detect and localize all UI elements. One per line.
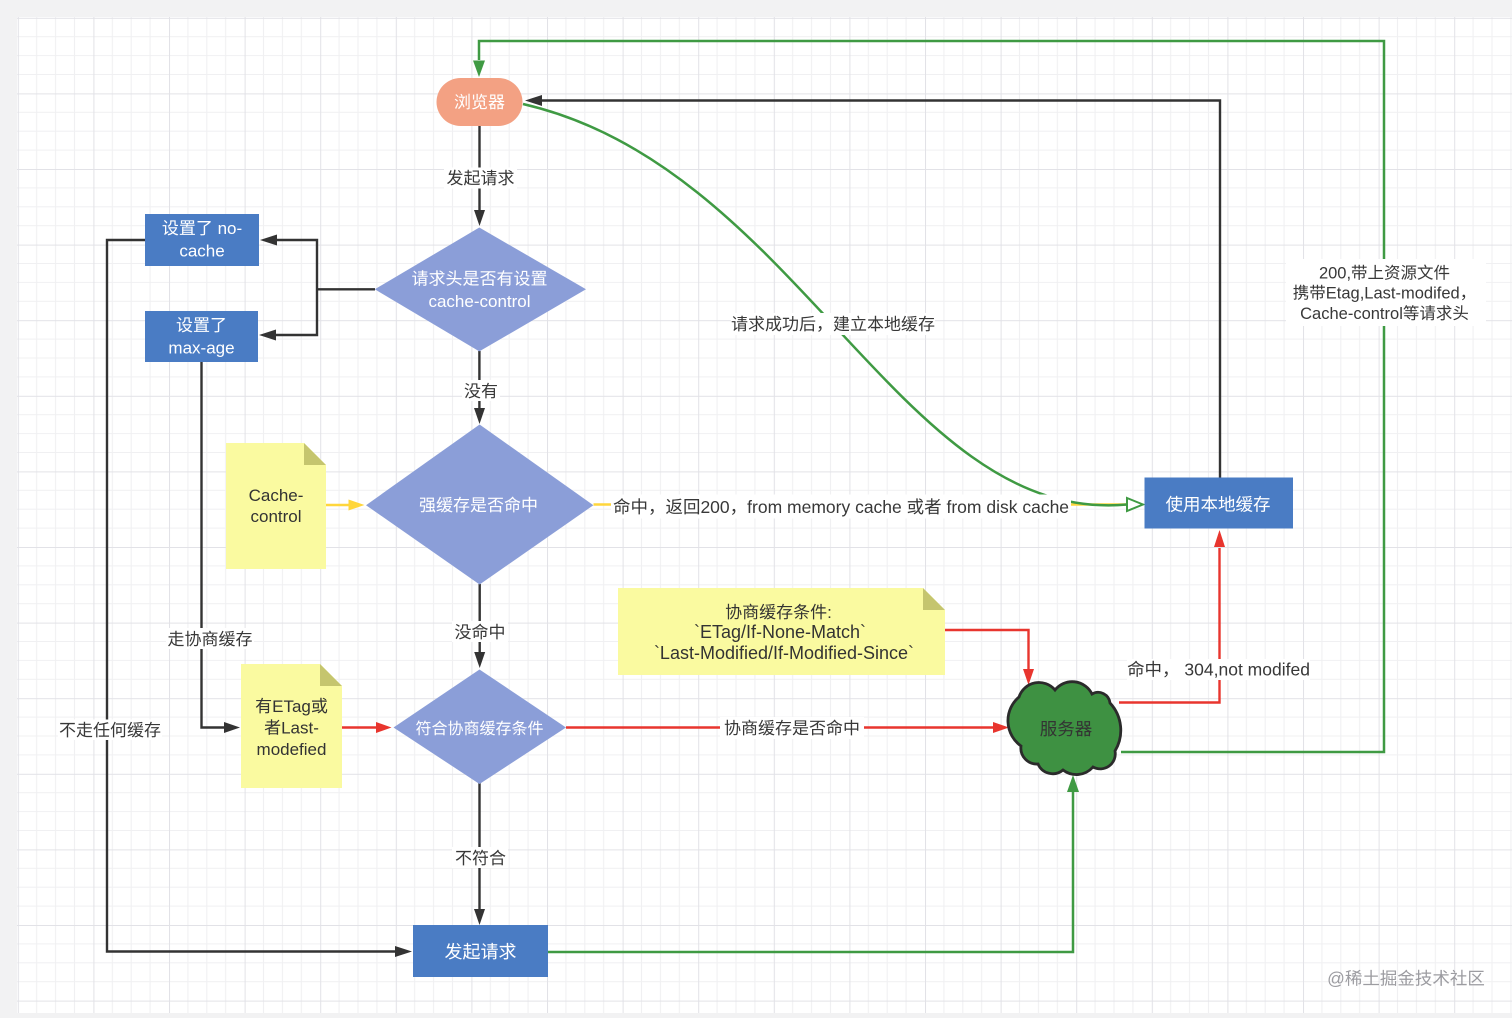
label take conditional cache (166, 628, 254, 649)
svg-text:命中，返回200，from memory cache 或者: 命中，返回200，from memory cache 或者 from disk … (613, 497, 1069, 517)
svg-text:Cache-control等请求头: Cache-control等请求头 (1300, 305, 1469, 323)
wire red: condition note to server top (945, 630, 1029, 669)
svg-text:modefied: modefied (257, 740, 327, 759)
node rect max-age (145, 311, 258, 362)
svg-text:发起请求: 发起请求 (447, 169, 515, 188)
label hit 304 not modified (1127, 659, 1310, 680)
svg-text:协商缓存是否命中: 协商缓存是否命中 (724, 719, 860, 738)
node rect no-cache (145, 214, 259, 266)
svg-text:不符合: 不符合 (455, 849, 506, 868)
svg-text:cache: cache (179, 242, 224, 261)
wire black: diamond2 to diamond3 (479, 584, 481, 652)
node note3 ETag or Last-modified (241, 664, 342, 788)
wire yellow: note1 to diamond2 (326, 504, 349, 506)
node rect use local cache (1145, 478, 1294, 529)
svg-text:设置了 no-: 设置了 no- (162, 219, 242, 238)
label request success build local cache (731, 313, 935, 335)
svg-text:者Last-: 者Last- (264, 719, 319, 738)
svg-text:请求头是否有设置: 请求头是否有设置 (412, 270, 548, 289)
label hit return 200 from memory/disk cache (611, 495, 1071, 519)
label conditional cache hit? (720, 717, 864, 739)
node diamond3 conditional cache check (394, 670, 567, 785)
arrowhead into max-age rect (259, 330, 276, 341)
svg-text:请求成功后，建立本地缓存: 请求成功后，建立本地缓存 (731, 315, 935, 334)
wire black: diamond1 left tip to branch point (276, 240, 375, 335)
node diamond1 cache-control set? (375, 228, 586, 352)
wire red: ETag note to diamond3 (342, 726, 376, 728)
wire yellow: diamond2 to local-cache rect (594, 503, 1129, 505)
svg-text:没有: 没有 (464, 382, 498, 401)
svg-text:`Last-Modified/If-Modified-Sin: `Last-Modified/If-Modified-Since` (654, 643, 914, 663)
svg-text:`ETag/If-None-Match`: `ETag/If-None-Match` (694, 622, 866, 642)
wire green: big response loop server-right-top-browser (479, 41, 1384, 752)
svg-text:服务器: 服务器 (1040, 719, 1093, 739)
wire black: no-cache rect left, down to bottom request rect (107, 240, 395, 952)
svg-text:Cache-: Cache- (249, 486, 304, 505)
svg-text:命中， 304,not modifed: 命中， 304,not modifed (1127, 660, 1310, 680)
node server cloud (1008, 682, 1121, 775)
node note1 Cache-control (226, 443, 326, 569)
label issue request (top edge) (444, 168, 517, 189)
svg-text:使用本地缓存: 使用本地缓存 (1166, 495, 1271, 515)
svg-text:不走任何缓存: 不走任何缓存 (59, 721, 161, 740)
svg-text:协商缓存条件:: 协商缓存条件: (725, 603, 832, 622)
wire black: diamond1 to diamond2 (478, 351, 480, 408)
node note2 conditional cache conditions (618, 588, 945, 675)
arrowhead into no-cache rect (260, 235, 277, 246)
wire black: max-age rect bottom down to ETag note (202, 362, 225, 728)
svg-text:control: control (250, 507, 301, 526)
label no cache at all (58, 720, 162, 741)
svg-text:cache-control: cache-control (428, 292, 530, 311)
wire green: bottom request rect to server bottom (548, 792, 1073, 952)
wire green: curve browser to local-cache (523, 104, 1127, 505)
node browser capsule (437, 78, 523, 126)
wire black: local-cache rect top, left to browser (542, 101, 1220, 479)
label none (462, 380, 500, 401)
svg-text:强缓存是否命中: 强缓存是否命中 (419, 496, 538, 515)
svg-text:有ETag或: 有ETag或 (255, 697, 328, 716)
svg-text:携带Etag,Last-modifed，: 携带Etag,Last-modifed， (1293, 285, 1476, 303)
wire red: diamond3 to server (566, 726, 993, 728)
label not satisfied (452, 847, 508, 868)
svg-text:走协商缓存: 走协商缓存 (168, 630, 253, 649)
label 200 with resource file (1286, 259, 1486, 326)
wire black: diamond3 to bottom request rect (478, 783, 480, 909)
node rect bottom issue request (413, 925, 548, 977)
svg-text:200,带上资源文件: 200,带上资源文件 (1319, 265, 1450, 283)
svg-text:@稀土掘金技术社区: @稀土掘金技术社区 (1327, 969, 1485, 989)
svg-text:发起请求: 发起请求 (445, 942, 517, 962)
svg-text:设置了: 设置了 (176, 316, 227, 335)
wire red: server to local-cache rect (1119, 548, 1220, 703)
label no hit (452, 621, 508, 642)
svg-text:没命中: 没命中 (455, 623, 506, 642)
svg-text:符合协商缓存条件: 符合协商缓存条件 (415, 720, 543, 738)
wire black: browser to diamond1 (478, 126, 480, 210)
node diamond2 strong cache hit? (366, 425, 593, 585)
svg-text:max-age: max-age (168, 339, 234, 358)
svg-text:浏览器: 浏览器 (454, 93, 505, 112)
